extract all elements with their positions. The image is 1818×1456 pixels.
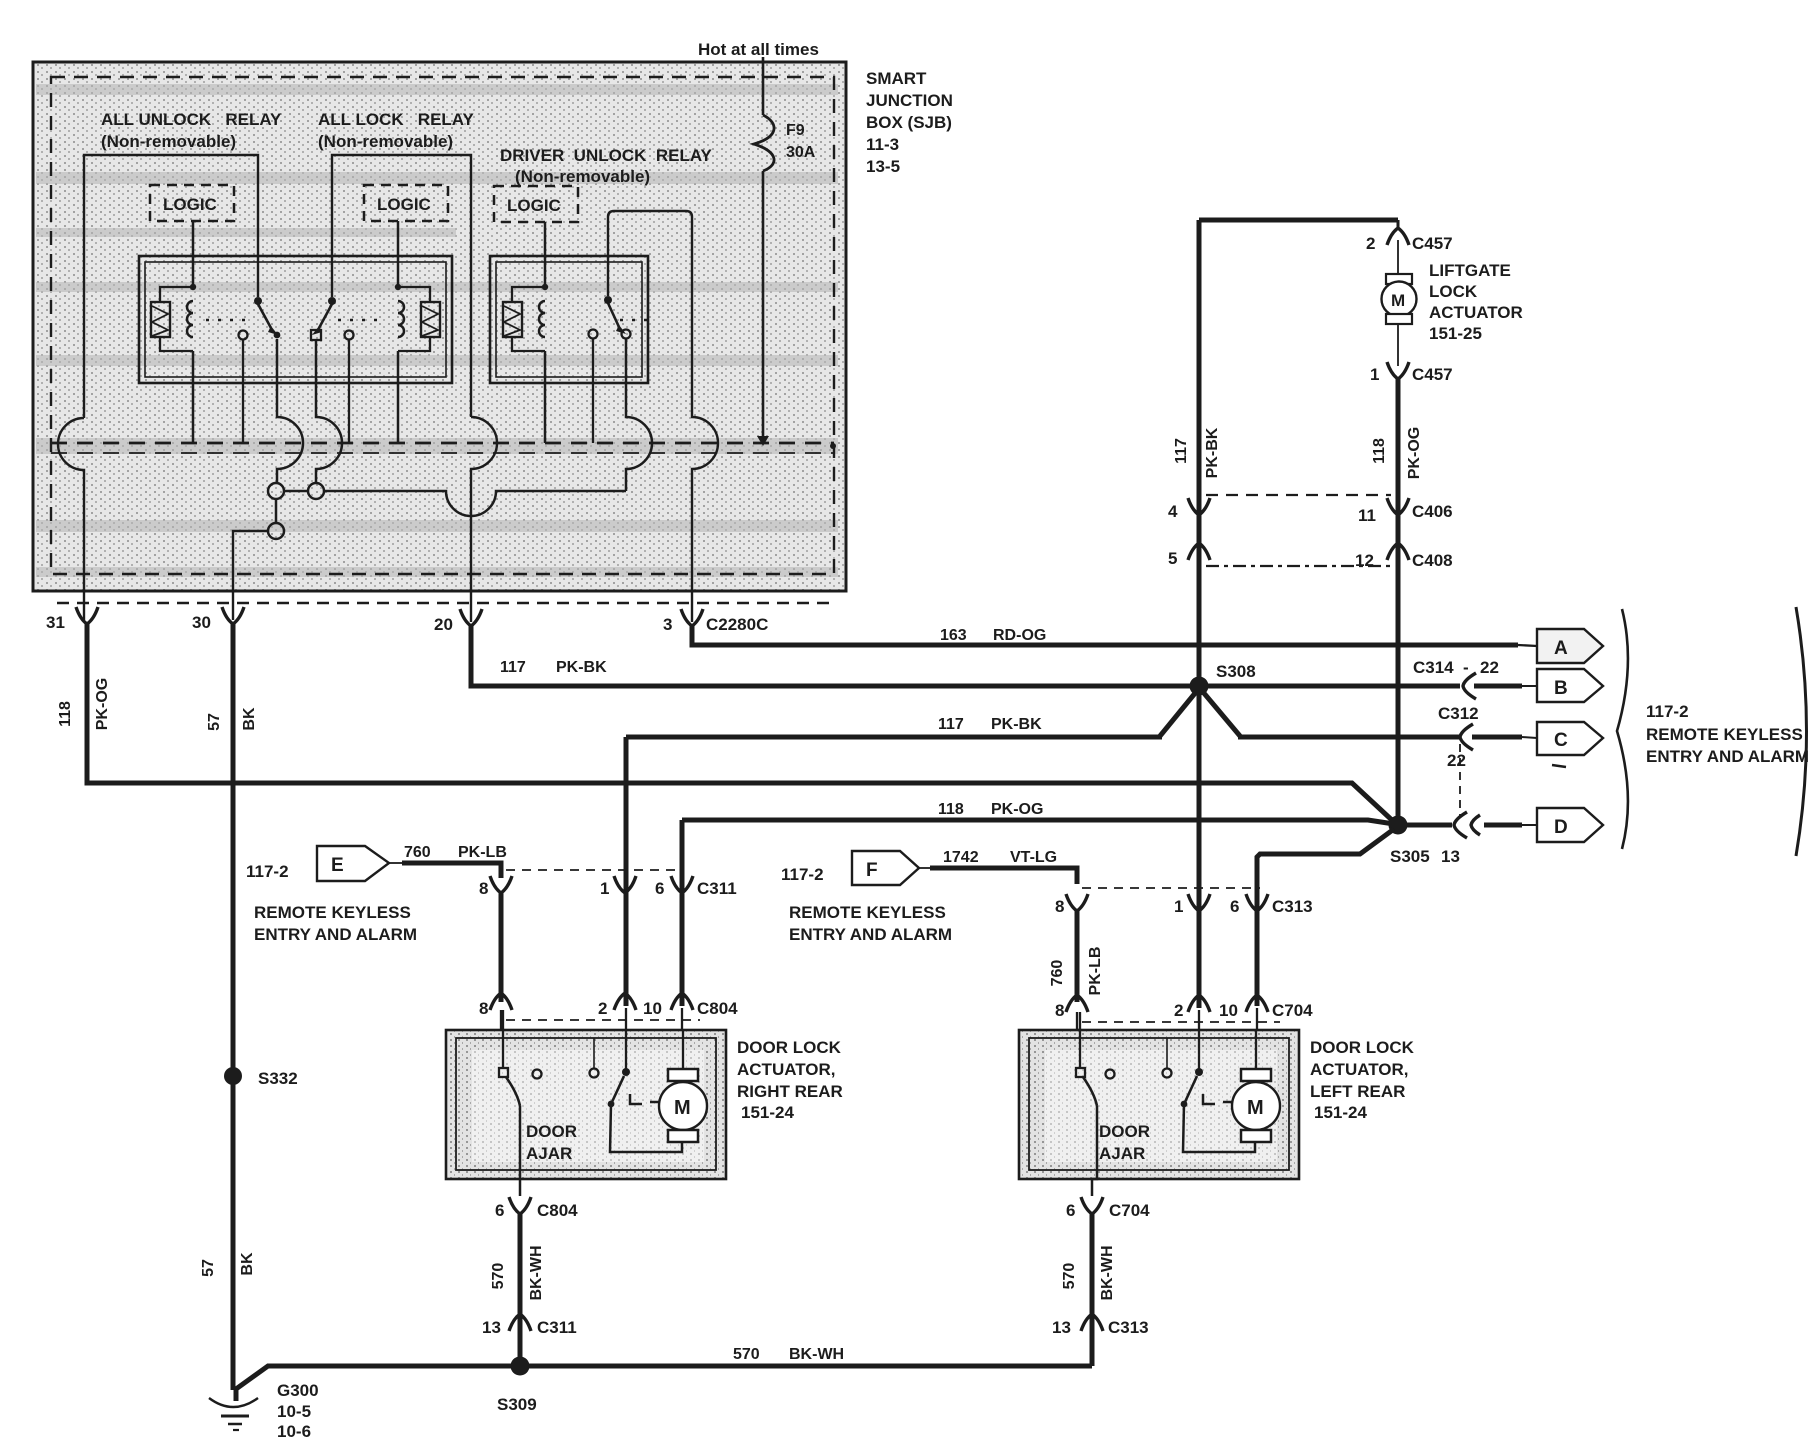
svg-text:11-3: 11-3 bbox=[866, 135, 899, 154]
svg-text:D: D bbox=[1554, 817, 1568, 838]
svg-text:G300: G300 bbox=[277, 1381, 319, 1400]
in-line connector chevron on C wire bbox=[1460, 724, 1473, 750]
svg-text:DRIVER UNLOCK RELAY: DRIVER UNLOCK RELAY bbox=[500, 146, 713, 165]
ground label G300 bbox=[277, 1381, 319, 1441]
wire 118 PK-OG liftgate down to S305 bbox=[1396, 379, 1401, 820]
wire pin8 into right rear actuator bbox=[501, 1010, 503, 1068]
svg-text:118: 118 bbox=[57, 701, 74, 727]
svg-text:F9: F9 bbox=[786, 122, 805, 139]
svg-text:4: 4 bbox=[1168, 502, 1178, 521]
thin wire chevron to connector B bbox=[1474, 684, 1522, 689]
SJB inner dashed boundary bbox=[51, 77, 834, 574]
mechanical link dots relay3 bbox=[620, 319, 652, 321]
connector arrow F bbox=[852, 851, 919, 885]
connector C704 dashed line bbox=[1082, 1021, 1280, 1023]
right rear spare contact bbox=[533, 1070, 542, 1079]
door lock actuator left rear box bbox=[1019, 1030, 1299, 1179]
pin 30 connector arrow bbox=[222, 607, 244, 624]
svg-text:LEFT REAR: LEFT REAR bbox=[1310, 1082, 1405, 1101]
left rear motor switch lever bbox=[1185, 1076, 1197, 1102]
right rear case stub contact bbox=[593, 1038, 595, 1068]
svg-text:PK-OG: PK-OG bbox=[991, 801, 1043, 818]
left rear case stub contact bbox=[1166, 1038, 1168, 1068]
relay 2 switch lever bbox=[319, 304, 332, 328]
wire S305 to connector D bbox=[1484, 823, 1522, 828]
svg-text:8: 8 bbox=[479, 879, 488, 898]
relay 2 switch square terminal bbox=[311, 330, 321, 340]
ground G300 symbol bbox=[209, 1398, 258, 1430]
relay 1 switch pivot bbox=[254, 297, 262, 305]
pin 4 arrow C406 bbox=[1188, 498, 1210, 515]
wire 570 BK-WH right rear down bbox=[518, 1212, 523, 1366]
wire stubs into left rear box bbox=[1080, 1008, 1257, 1069]
pin 10 arrow C704 bbox=[1246, 995, 1268, 1012]
svg-text:C311: C311 bbox=[537, 1318, 577, 1337]
svg-text:C: C bbox=[1554, 730, 1568, 751]
svg-text:760: 760 bbox=[1049, 960, 1066, 987]
pin 12 arrow C408 bbox=[1387, 543, 1409, 560]
svg-text:30A: 30A bbox=[786, 144, 816, 161]
remote keyless note at E bbox=[254, 903, 417, 944]
svg-text:117-2: 117-2 bbox=[781, 865, 824, 884]
relay 2 coil resistor element bbox=[398, 287, 440, 351]
top wire joining SJB output to liftgate feed bbox=[1199, 218, 1398, 223]
relay 3 switch pivot bbox=[604, 296, 612, 304]
connector C312 dashed link bbox=[1459, 744, 1461, 816]
svg-text:13: 13 bbox=[1052, 1318, 1071, 1337]
wire 117 PK-BK branch C left run bbox=[626, 735, 1162, 740]
svg-text:DOOR: DOOR bbox=[1099, 1122, 1150, 1141]
svg-text:ENTRY AND ALARM: ENTRY AND ALARM bbox=[254, 925, 417, 944]
svg-text:C406: C406 bbox=[1412, 502, 1453, 521]
svg-text:6: 6 bbox=[1230, 897, 1239, 916]
wire contact 349 to bus bbox=[348, 340, 350, 443]
svg-text:8: 8 bbox=[1055, 897, 1064, 916]
relay 2 coil wire to bus bbox=[397, 351, 400, 443]
logic box relay 1 bbox=[150, 185, 234, 221]
small dash under connector C bbox=[1552, 765, 1566, 767]
S308 diagonal to C branch left bbox=[1160, 692, 1196, 736]
svg-text:8: 8 bbox=[1055, 1001, 1064, 1020]
liftgate label bbox=[1429, 261, 1523, 343]
svg-text:1: 1 bbox=[1370, 365, 1379, 384]
pin 13 arrow C311 bbox=[509, 1314, 531, 1331]
svg-text:6: 6 bbox=[495, 1201, 504, 1220]
svg-text:E: E bbox=[331, 855, 344, 876]
svg-text:LIFTGATE: LIFTGATE bbox=[1429, 261, 1511, 280]
svg-text:PK-LB: PK-LB bbox=[1087, 947, 1104, 996]
svg-text:C313: C313 bbox=[1272, 897, 1313, 916]
relay 3 contact terminal right bbox=[622, 330, 631, 339]
svg-text:3: 3 bbox=[663, 615, 672, 634]
svg-text:Hot at all times: Hot at all times bbox=[698, 40, 819, 59]
wire from hot feed to fuse bbox=[762, 57, 765, 115]
svg-text:REMOTE KEYLESS: REMOTE KEYLESS bbox=[789, 903, 946, 922]
svg-text:LOCK: LOCK bbox=[1429, 282, 1478, 301]
in-line connector chevron on B wire C314 bbox=[1463, 673, 1476, 699]
left rear motor M bbox=[1232, 1030, 1280, 1142]
svg-text:13: 13 bbox=[482, 1318, 501, 1337]
svg-text:2: 2 bbox=[1174, 1001, 1183, 1020]
svg-text:10: 10 bbox=[1219, 1001, 1238, 1020]
svg-text:M: M bbox=[674, 1097, 691, 1119]
left rear actuator label bbox=[1310, 1038, 1415, 1122]
svg-text:22: 22 bbox=[1447, 751, 1466, 770]
svg-text:ENTRY AND ALARM: ENTRY AND ALARM bbox=[1646, 747, 1809, 766]
svg-text:RIGHT REAR: RIGHT REAR bbox=[737, 1082, 843, 1101]
svg-text:REMOTE KEYLESS: REMOTE KEYLESS bbox=[254, 903, 411, 922]
right rear polarity mark bbox=[630, 1094, 663, 1104]
svg-text:22: 22 bbox=[1480, 658, 1499, 677]
wire 760 PK-LB from E bbox=[389, 862, 404, 864]
svg-text:ACTUATOR,: ACTUATOR, bbox=[1310, 1060, 1409, 1079]
svg-text:151-25: 151-25 bbox=[1429, 324, 1482, 343]
relay 2 coil inductor bbox=[398, 301, 404, 337]
wire to door lock from branch C corner bbox=[624, 737, 629, 1006]
connector arrow D bbox=[1537, 808, 1603, 842]
wire 570 BK-WH left rear down bbox=[1090, 1212, 1095, 1366]
left rear door ajar wire to pin 6 bbox=[1092, 1106, 1097, 1196]
svg-text:C314: C314 bbox=[1413, 658, 1454, 677]
svg-text:B: B bbox=[1554, 678, 1568, 699]
relay 3 coil wire to bus bbox=[544, 351, 547, 443]
wire 163 RD-OG from pin 3 to connector A bbox=[692, 626, 1518, 645]
contact box relay 3 (double border) bbox=[490, 256, 648, 383]
SJB bottom connector dashed line C2280C bbox=[57, 602, 834, 605]
svg-text:57: 57 bbox=[200, 1259, 217, 1277]
junction circle B below bus bbox=[308, 483, 324, 499]
pin 8 arrow C804 bbox=[490, 993, 512, 1010]
svg-text:-: - bbox=[1463, 658, 1469, 677]
smart junction box SJB outline bbox=[33, 62, 846, 591]
svg-text:PK-BK: PK-BK bbox=[1204, 427, 1221, 478]
svg-text:10-6: 10-6 bbox=[277, 1422, 311, 1441]
svg-text:BK: BK bbox=[239, 1252, 256, 1276]
relay 3 coil inductor bbox=[539, 301, 545, 337]
left rear motor switch pivot bbox=[1195, 1068, 1203, 1076]
wire 1742 VT-LG from F bbox=[919, 867, 932, 869]
svg-text:BOX (SJB): BOX (SJB) bbox=[866, 113, 952, 132]
svg-text:151-24: 151-24 bbox=[1314, 1103, 1367, 1122]
pin 8 arrow C704 bbox=[1066, 995, 1088, 1012]
svg-text:AJAR: AJAR bbox=[526, 1144, 572, 1163]
relay 1 coil node bbox=[190, 284, 196, 290]
relay 2 switch pivot bbox=[328, 297, 336, 305]
S308 diagonal to C branch right bbox=[1203, 692, 1240, 736]
svg-text:M: M bbox=[1247, 1097, 1264, 1119]
remote keyless note right bbox=[1646, 702, 1809, 766]
svg-text:C457: C457 bbox=[1412, 365, 1453, 384]
svg-text:5: 5 bbox=[1168, 549, 1177, 568]
svg-text:C804: C804 bbox=[537, 1201, 578, 1220]
pin 8 arrow C313 bbox=[1066, 894, 1088, 911]
svg-text:BK: BK bbox=[241, 707, 258, 731]
wire 118 PK-OG lower run to S305 bbox=[682, 820, 1394, 824]
svg-text:PK-OG: PK-OG bbox=[94, 678, 111, 730]
connector C406 dashed line bbox=[1206, 494, 1391, 496]
svg-text:C313: C313 bbox=[1108, 1318, 1149, 1337]
svg-text:S305: S305 bbox=[1390, 847, 1430, 866]
pin 31 connector arrow bbox=[76, 607, 98, 624]
right rear motor M bbox=[659, 1030, 707, 1142]
right margin paren bbox=[1796, 607, 1807, 856]
svg-text:LOGIC: LOGIC bbox=[377, 195, 431, 214]
svg-text:PK-BK: PK-BK bbox=[556, 659, 607, 676]
right rear DOOR AJAR label bbox=[526, 1122, 577, 1163]
fuse F9 30A bbox=[754, 115, 816, 171]
svg-text:30: 30 bbox=[192, 613, 211, 632]
svg-text:117: 117 bbox=[500, 659, 526, 676]
all unlock relay title bbox=[101, 110, 282, 151]
svg-text:(Non-removable): (Non-removable) bbox=[318, 132, 453, 151]
svg-text:6: 6 bbox=[655, 879, 664, 898]
wire from square terminal down with hop over bus bbox=[316, 340, 342, 483]
svg-text:VT-LG: VT-LG bbox=[1010, 849, 1057, 866]
splice S332 bbox=[224, 1067, 242, 1085]
contact box relays 1+2 (double border) bbox=[139, 256, 452, 383]
relay 2 coil feed wire from logic bbox=[397, 221, 400, 287]
pin 1 arrow C457 bbox=[1387, 362, 1409, 379]
svg-text:6: 6 bbox=[1066, 1201, 1075, 1220]
pin 6 arrow C804 below right box bbox=[509, 1197, 531, 1214]
svg-text:117: 117 bbox=[1173, 438, 1190, 464]
all unlock relay box bbox=[84, 155, 258, 418]
svg-text:C311: C311 bbox=[697, 879, 737, 898]
mechanical link dots relay1 bbox=[206, 319, 254, 321]
wire 118 PK-OG from pin 31 down and right to S305 bbox=[87, 624, 1394, 822]
pin 5 arrow C408 bbox=[1188, 543, 1210, 560]
junction circle C lower bbox=[268, 523, 284, 539]
pin 2 arrow C804 bbox=[614, 993, 636, 1010]
link wire between junction circles bbox=[284, 490, 308, 493]
svg-text:163: 163 bbox=[940, 627, 967, 644]
splice S305 bbox=[1389, 816, 1408, 835]
thin wire chevron to connector C bbox=[1472, 735, 1522, 740]
svg-text:ACTUATOR: ACTUATOR bbox=[1429, 303, 1523, 322]
svg-text:C804: C804 bbox=[697, 999, 738, 1018]
svg-text:BK-WH: BK-WH bbox=[528, 1245, 545, 1300]
svg-text:C704: C704 bbox=[1272, 1001, 1313, 1020]
pin 2 arrow C704 bbox=[1188, 995, 1210, 1012]
svg-text:REMOTE KEYLESS: REMOTE KEYLESS bbox=[1646, 725, 1803, 744]
wire 20 to 117 PK-BK feed bbox=[471, 626, 1460, 686]
pin 31 wire inside box with left hop bbox=[58, 418, 84, 620]
svg-text:LOGIC: LOGIC bbox=[507, 196, 561, 215]
logic box relay 2 bbox=[364, 185, 448, 221]
svg-text:118: 118 bbox=[938, 801, 964, 818]
svg-text:M: M bbox=[1391, 291, 1405, 310]
svg-text:SMART: SMART bbox=[866, 69, 927, 88]
svg-text:2: 2 bbox=[598, 999, 607, 1018]
connector arrow A bbox=[1537, 629, 1603, 663]
pin 1 arrow C313 bbox=[1188, 894, 1210, 911]
vertical wire 117 PK-BK from top run down to S308 and door lock bbox=[1197, 220, 1202, 1008]
svg-text:BK-WH: BK-WH bbox=[1099, 1245, 1116, 1300]
right rear actuator label bbox=[737, 1038, 843, 1122]
svg-text:(Non-removable): (Non-removable) bbox=[101, 132, 236, 151]
right rear motor switch pivot bbox=[622, 1068, 630, 1076]
svg-text:1742: 1742 bbox=[943, 849, 979, 866]
svg-text:DOOR LOCK: DOOR LOCK bbox=[737, 1038, 842, 1057]
svg-text:C457: C457 bbox=[1412, 234, 1453, 253]
junction circle A below bus bbox=[268, 483, 284, 499]
pin 6 arrow C313 bbox=[1246, 894, 1268, 911]
wire circle C to pin 30 bbox=[233, 531, 268, 620]
relay 1 coil inductor bbox=[187, 301, 193, 337]
svg-text:ACTUATOR,: ACTUATOR, bbox=[737, 1060, 836, 1079]
svg-text:S309: S309 bbox=[497, 1395, 537, 1414]
wire terminal 626 down with hop to lower junction bbox=[626, 339, 652, 491]
svg-text:570: 570 bbox=[733, 1346, 760, 1363]
pin 10 arrow C804 bbox=[671, 993, 693, 1010]
wire motor to pin 1 bbox=[1397, 324, 1399, 366]
svg-text:117-2: 117-2 bbox=[1646, 702, 1689, 721]
svg-text:RD-OG: RD-OG bbox=[993, 627, 1046, 644]
left rear door ajar lever bbox=[1083, 1077, 1097, 1106]
svg-text:BK-WH: BK-WH bbox=[789, 1346, 844, 1363]
svg-text:C704: C704 bbox=[1109, 1201, 1150, 1220]
driver unlock relay title bbox=[500, 146, 713, 186]
SJB internal bus dashed line upper bbox=[51, 442, 834, 445]
wire from terminal 277 down with hop over bus bbox=[277, 339, 303, 483]
svg-text:ENTRY AND ALARM: ENTRY AND ALARM bbox=[789, 925, 952, 944]
svg-text:ALL UNLOCK RELAY: ALL UNLOCK RELAY bbox=[101, 110, 282, 129]
relay 1 switch contact terminal NC bbox=[239, 331, 248, 340]
in-line connector chevron on D wire bbox=[1454, 812, 1480, 838]
svg-text:PK-LB: PK-LB bbox=[458, 844, 507, 861]
relay 3 coil feed wire from logic bbox=[544, 222, 547, 287]
pin 20 wire from relay2 box edge to SJB bottom bbox=[471, 417, 497, 622]
relay 1 coil feed wire from logic bbox=[192, 221, 195, 287]
mechanical link dots relay2 bbox=[338, 319, 386, 321]
ground run wire 570 BK-WH bbox=[236, 1366, 1092, 1401]
svg-text:C2280C: C2280C bbox=[706, 615, 768, 634]
svg-text:117: 117 bbox=[938, 716, 964, 733]
svg-text:57: 57 bbox=[206, 713, 223, 731]
svg-text:A: A bbox=[1554, 638, 1568, 659]
pin 2 arrow C457 bbox=[1387, 228, 1409, 245]
wire contact 593 to bus bbox=[592, 339, 594, 443]
svg-text:DOOR LOCK: DOOR LOCK bbox=[1310, 1038, 1415, 1057]
pin 11 arrow C406 bbox=[1387, 498, 1409, 515]
relay 1 switch common terminal bbox=[274, 332, 281, 339]
connector C804 dashed line bbox=[506, 1019, 700, 1021]
left rear motor feed wire bbox=[1183, 1104, 1255, 1152]
all lock relay title bbox=[318, 110, 475, 151]
grouping brace bbox=[1617, 609, 1628, 849]
relay 2 coil node bbox=[395, 284, 401, 290]
svg-text:(Non-removable): (Non-removable) bbox=[515, 167, 650, 186]
pin 20 connector arrow bbox=[460, 609, 482, 626]
connector C311 dashed line bbox=[506, 869, 680, 871]
svg-text:C312: C312 bbox=[1438, 704, 1479, 723]
right rear door ajar wire to pin 6 bbox=[519, 1106, 522, 1196]
splice S309 bbox=[511, 1357, 530, 1376]
relay 1 coil resistor element R bbox=[151, 287, 193, 351]
svg-text:151-24: 151-24 bbox=[741, 1103, 794, 1122]
connector arrow B bbox=[1537, 669, 1603, 702]
liftgate lock actuator motor M bbox=[1382, 274, 1417, 324]
relay 1 switch lever bbox=[258, 304, 271, 328]
svg-text:S308: S308 bbox=[1216, 662, 1256, 681]
wire circle A to circle C bbox=[275, 499, 278, 523]
wire F branch down to door pin 8 bbox=[1075, 911, 1080, 1002]
svg-text:F: F bbox=[866, 860, 878, 881]
left rear door ajar switch contact bbox=[1076, 1068, 1085, 1077]
pin 6 arrow C704 below left box bbox=[1081, 1197, 1103, 1214]
svg-text:DOOR: DOOR bbox=[526, 1122, 577, 1141]
logic box relay 3 bbox=[494, 186, 578, 222]
svg-text:C408: C408 bbox=[1412, 551, 1453, 570]
connector C313 dashed line bbox=[1082, 887, 1260, 889]
pin 6 arrow C311 bbox=[671, 876, 693, 893]
liftgate feed wire top bbox=[1397, 220, 1400, 228]
svg-text:8: 8 bbox=[479, 999, 488, 1018]
svg-text:12: 12 bbox=[1355, 551, 1374, 570]
relay 1 coil wire to bus bbox=[192, 351, 195, 443]
svg-text:117-2: 117-2 bbox=[246, 862, 289, 881]
wire stubs into right rear box bbox=[503, 1008, 682, 1069]
horizontal wire from circle B to driver relay wire with hop under pin20 wire bbox=[324, 491, 626, 516]
svg-text:JUNCTION: JUNCTION bbox=[866, 91, 953, 110]
SJB internal bus dashed line lower bbox=[51, 452, 834, 454]
relay 2 switch contact terminal NO bbox=[345, 331, 354, 340]
svg-text:PK-OG: PK-OG bbox=[1406, 427, 1423, 479]
SJB label bbox=[866, 69, 953, 176]
svg-text:AJAR: AJAR bbox=[1099, 1144, 1145, 1163]
connector C408 dash-dot line bbox=[1206, 565, 1390, 567]
svg-text:570: 570 bbox=[1061, 1263, 1078, 1290]
wire 117 PK-BK branch C right run bbox=[1238, 735, 1460, 740]
svg-text:760: 760 bbox=[404, 844, 431, 861]
svg-text:13-5: 13-5 bbox=[866, 157, 900, 176]
svg-text:11: 11 bbox=[1358, 506, 1376, 525]
wire from 118 run down to right rear actuator pin 10 bbox=[680, 820, 685, 1006]
svg-text:118: 118 bbox=[1371, 438, 1388, 464]
remote keyless note at F bbox=[789, 903, 952, 944]
relay 3 coil resistor element bbox=[503, 287, 545, 351]
relay 3 contact terminal left bbox=[589, 330, 598, 339]
relay 3 common wire pivot to pin 3 with hop bbox=[608, 211, 718, 622]
wire pin2 to liftgate motor bbox=[1397, 240, 1399, 274]
wire pin8 into left rear actuator bbox=[1077, 1012, 1080, 1068]
door lock actuator right rear box bbox=[446, 1030, 726, 1179]
connector arrow C bbox=[1537, 722, 1603, 755]
connector arrow E bbox=[317, 846, 389, 881]
right rear motor switch lever bbox=[612, 1076, 624, 1102]
SJB texture bands bbox=[36, 84, 838, 577]
wire contact 243 to bus bbox=[242, 340, 244, 443]
svg-text:20: 20 bbox=[434, 615, 453, 634]
svg-text:ALL LOCK RELAY: ALL LOCK RELAY bbox=[318, 110, 475, 129]
right rear motor feed wire bbox=[610, 1104, 682, 1152]
wire E branch down to door pin 8 bbox=[499, 893, 504, 1002]
splice S308 bbox=[1190, 677, 1209, 696]
wire fuse to internal bus bbox=[762, 171, 765, 441]
wire 57 BK from pin 30 down to ground run bbox=[231, 624, 236, 1390]
svg-text:13: 13 bbox=[1441, 847, 1460, 866]
bus end dot bbox=[830, 443, 836, 449]
svg-text:10: 10 bbox=[643, 999, 662, 1018]
S305 branch to left rear actuator bbox=[1257, 829, 1394, 1006]
svg-text:PK-BK: PK-BK bbox=[991, 716, 1042, 733]
svg-text:1: 1 bbox=[600, 879, 609, 898]
pin 8 arrow C311 bbox=[490, 876, 512, 893]
right rear door ajar switch contact bbox=[499, 1068, 508, 1077]
pin 13 arrow C313 bbox=[1081, 1314, 1103, 1331]
right rear door ajar lever bbox=[506, 1077, 520, 1106]
svg-text:10-5: 10-5 bbox=[277, 1402, 311, 1421]
